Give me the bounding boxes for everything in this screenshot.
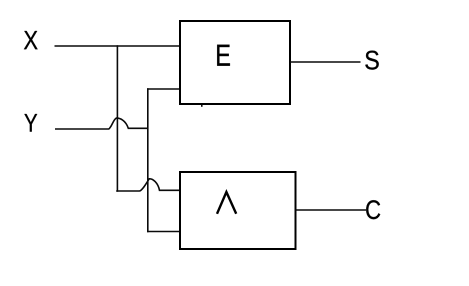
wire S output	[290, 61, 361, 63]
label E (XOR gate symbol)	[217, 45, 230, 66]
wire Y branch vertical	[147, 88, 149, 232]
label X (input X)	[24, 31, 38, 49]
label S (sum output)	[365, 51, 378, 70]
wire X branch to AND gate with hop over Y branch	[116, 179, 180, 191]
wire X branch vertical	[116, 45, 118, 192]
stray tick on XOR box bottom edge	[201, 104, 203, 107]
wire C output	[296, 209, 367, 211]
label Y (input Y)	[24, 114, 37, 132]
XOR gate box U1	[180, 21, 290, 104]
label AND wedge symbol	[217, 192, 236, 214]
label C (carry output)	[366, 200, 380, 219]
wire Y to XOR gate input	[147, 88, 180, 90]
wire X input horizontal	[55, 45, 181, 47]
AND gate box U2	[180, 172, 296, 249]
wire Y input horizontal with hop over X branch	[55, 118, 148, 129]
wire Y branch bottom to AND gate input	[147, 231, 180, 233]
